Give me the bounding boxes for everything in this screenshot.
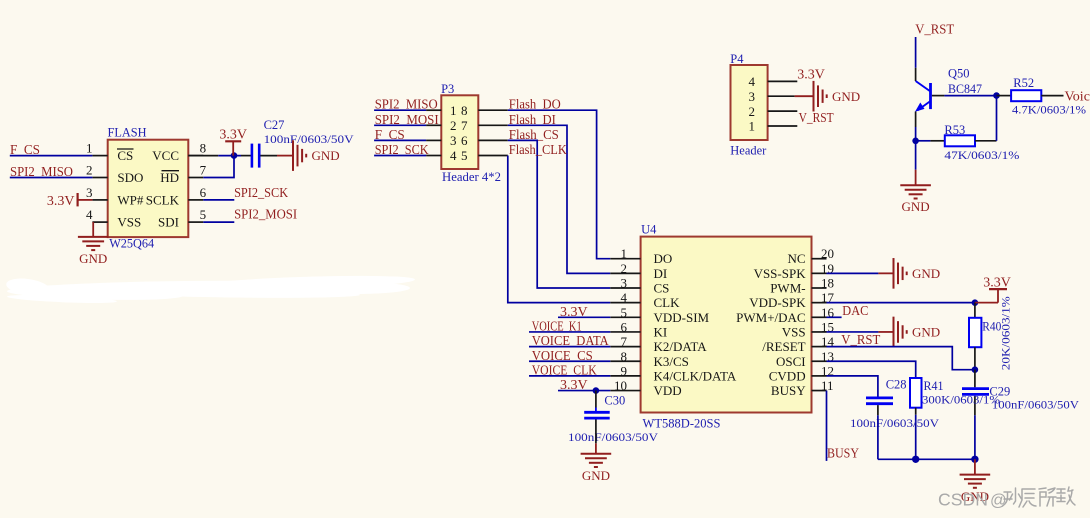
svg-text:7: 7 — [461, 118, 468, 133]
header P3 body — [441, 95, 478, 169]
svg-text:2: 2 — [450, 118, 457, 133]
svg-text:VSS-SPK: VSS-SPK — [754, 266, 807, 281]
wire Flash_CLK P3 pin5 to U4 pin4 — [508, 156, 611, 303]
capacitor C28 — [866, 398, 893, 404]
svg-text:GND: GND — [312, 148, 340, 163]
Q50 collector pin — [915, 68, 917, 81]
svg-text:R40: R40 — [982, 319, 1001, 333]
svg-text:1: 1 — [749, 119, 756, 134]
svg-text:V_RST: V_RST — [799, 111, 834, 126]
wire U4 pin 17 to 3.3V node — [827, 302, 975, 304]
svg-text:6: 6 — [461, 133, 468, 148]
ground at bottom rail — [960, 475, 991, 505]
wire U4 pin 19 to ground — [827, 272, 894, 274]
wire R53 to base node — [996, 96, 998, 141]
svg-text:4: 4 — [86, 207, 93, 222]
wire flash pin 7 HD to junction — [203, 156, 234, 178]
svg-text:GND: GND — [902, 199, 930, 214]
svg-text:BUSY: BUSY — [771, 383, 806, 398]
wire C29 to bottom rail — [974, 396, 976, 460]
R53 right pin — [975, 140, 997, 142]
junction at U4 pin 10 — [593, 387, 600, 394]
svg-text:WP#: WP# — [117, 193, 143, 208]
P4 pin stubs — [768, 81, 798, 126]
svg-text:PWM-: PWM- — [770, 281, 805, 296]
svg-text:DO: DO — [654, 251, 673, 266]
svg-text:3: 3 — [450, 133, 457, 148]
resistor R41 — [910, 378, 922, 408]
svg-text:DAC: DAC — [842, 304, 868, 319]
svg-text:2: 2 — [749, 104, 756, 119]
svg-text:SCLK: SCLK — [146, 193, 180, 208]
P4 pin numbers 4 3 2 1 — [749, 74, 756, 134]
wire VOICE_CLK to U4 pin 9 — [529, 375, 610, 377]
svg-text:3.3V: 3.3V — [797, 67, 825, 82]
ground at Q50 emitter — [900, 185, 931, 214]
wire U4 pin 16 DAC — [827, 316, 842, 318]
ground at C30 — [581, 454, 612, 483]
junction bottom rail C29 — [971, 456, 978, 463]
svg-text:SPI2_SCK: SPI2_SCK — [234, 186, 288, 201]
svg-text:BC847: BC847 — [948, 82, 982, 96]
svg-text:CVDD: CVDD — [769, 368, 806, 383]
wire SPI2_SCK to P3 pin 4 — [374, 155, 426, 157]
svg-text:P3: P3 — [441, 82, 454, 96]
wire Q50 emitter to ground — [915, 141, 917, 170]
capacitor C27 — [252, 144, 259, 168]
svg-text:1: 1 — [450, 103, 457, 118]
svg-text:Header 4*2: Header 4*2 — [442, 170, 501, 184]
svg-text:20K/0603/1%: 20K/0603/1% — [1001, 296, 1013, 371]
svg-text:2: 2 — [86, 163, 93, 178]
wire U4 pin 15 to ground — [827, 331, 894, 333]
R40 top pin — [974, 303, 976, 318]
svg-text:3.3V: 3.3V — [983, 275, 1011, 290]
junction at U4 pin 17 R40 — [972, 299, 979, 306]
svg-text:W25Q64: W25Q64 — [109, 237, 155, 251]
capacitor C29 — [962, 389, 989, 395]
resistor R52 — [1011, 90, 1041, 101]
wire junction to C30 — [595, 391, 597, 411]
wire Flash_DI P3 pin7 to U4 pin2 — [508, 125, 611, 273]
svg-text:OSCI: OSCI — [776, 354, 806, 369]
power 3.3V at flash pin 3 — [47, 193, 93, 209]
svg-text:SDI: SDI — [158, 215, 179, 230]
bottom rail wire — [878, 458, 975, 460]
wire U4 pin 11 BUSY — [826, 391, 828, 461]
svg-text:SPI2_MOSI: SPI2_MOSI — [234, 208, 297, 223]
wire F_CS — [10, 155, 93, 157]
svg-text:VDD: VDD — [654, 383, 682, 398]
svg-text:FLASH: FLASH — [108, 125, 147, 139]
capacitor C30 — [584, 412, 610, 418]
wire U4 pin 13 to R41 — [827, 361, 916, 378]
svg-text:7: 7 — [200, 163, 207, 178]
svg-text:PWM+/DAC: PWM+/DAC — [736, 310, 805, 325]
svg-text:8: 8 — [461, 103, 468, 118]
svg-text:GND: GND — [912, 325, 940, 340]
svg-text:U4: U4 — [641, 222, 657, 236]
U4 pin numbers right 20-11 — [821, 246, 835, 393]
svg-text:300K/0603/1%: 300K/0603/1% — [922, 394, 1001, 406]
ground at U4 pin 19 — [894, 258, 941, 289]
R53 left pin — [930, 140, 944, 142]
svg-text:Voice: Voice — [1065, 89, 1090, 104]
U4 pin names — [654, 251, 807, 398]
svg-text:K2/DATA: K2/DATA — [654, 339, 708, 354]
svg-text:1: 1 — [86, 141, 93, 156]
svg-text:CLK: CLK — [654, 295, 681, 310]
svg-text:4: 4 — [450, 148, 457, 163]
svg-text:100nF/0603/50V: 100nF/0603/50V — [992, 399, 1080, 411]
P3 pin stubs — [426, 110, 508, 155]
R52 left pin — [997, 95, 1012, 97]
svg-text:R53: R53 — [944, 123, 965, 137]
svg-text:Header: Header — [730, 144, 767, 158]
svg-text:GND: GND — [79, 251, 107, 266]
wire R41 to bottom rail — [915, 408, 917, 415]
U4 pin stubs right — [812, 259, 827, 391]
flash pin numbers left 1 2 3 4 — [86, 141, 93, 223]
C29 top pin — [974, 370, 976, 388]
wire SPI2_MOSI to P3 pin 2 — [374, 124, 426, 126]
svg-text:KI: KI — [654, 324, 668, 339]
wire P4 pin 3 to ground — [795, 95, 814, 97]
white smudge — [5, 273, 415, 305]
svg-text:100nF/0603/50V: 100nF/0603/50V — [850, 418, 940, 430]
svg-text:C30: C30 — [604, 394, 625, 408]
power 3.3V at flash VCC — [219, 127, 247, 155]
wire Q50 base to junction — [944, 95, 996, 97]
svg-text:Flash_CLK: Flash_CLK — [509, 143, 567, 158]
svg-text:C28: C28 — [886, 378, 907, 392]
svg-text:5: 5 — [200, 207, 207, 222]
svg-text:4.7K/0603/1%: 4.7K/0603/1% — [1012, 104, 1087, 116]
transistor Q50 BC847 — [915, 81, 931, 112]
ground at flash VSS — [78, 237, 109, 266]
svg-text:VCC: VCC — [152, 148, 179, 163]
svg-text:VDD-SIM: VDD-SIM — [654, 310, 710, 325]
wire C30 to ground — [595, 420, 597, 454]
svg-text:/RESET: /RESET — [762, 339, 805, 354]
junction R40 C29 — [972, 366, 979, 373]
header P4 body — [731, 65, 768, 140]
flash pin names — [117, 148, 180, 230]
svg-text:HD: HD — [160, 170, 179, 185]
svg-text:@: @ — [990, 492, 1007, 510]
wire SPI2_MISO to P3 pin 1 — [374, 109, 426, 111]
svg-text:47K/0603/1%: 47K/0603/1% — [944, 150, 1020, 162]
U4 pin numbers left 1-10 — [614, 246, 628, 393]
wire SPI2_MOSI — [203, 221, 234, 223]
svg-text:100nF/0603/50V: 100nF/0603/50V — [264, 134, 355, 146]
wire flash pin 8 to C27 — [188, 155, 218, 157]
U4 pin stubs left — [610, 259, 640, 391]
svg-text:CS: CS — [654, 281, 670, 296]
svg-text:SDO: SDO — [117, 170, 143, 185]
wire VOICE_K1 to U4 pin 6 — [529, 331, 610, 333]
svg-text:3.3V: 3.3V — [47, 194, 75, 209]
ground at U4 pin 15 — [894, 317, 941, 348]
wire 3.3V to U4 pin 10 — [558, 390, 610, 392]
wire Flash_CS P3 pin6 to U4 pin3 — [508, 140, 611, 288]
svg-text:4: 4 — [749, 74, 756, 89]
flash pin numbers right 8 7 6 5 — [200, 141, 207, 223]
wire C28 to bottom rail — [877, 405, 879, 415]
svg-text:V_RST: V_RST — [915, 23, 954, 38]
wire bottom rail to ground — [974, 459, 976, 474]
wire U4 pin 14 V_RST to R40 bottom junction — [827, 347, 975, 370]
wire C27 to ground — [260, 155, 293, 157]
P3 pin numbers — [450, 103, 468, 163]
wire 3.3V to U4 pin 5 — [558, 316, 610, 318]
svg-text:8: 8 — [200, 141, 207, 156]
resistor R53 — [945, 135, 975, 146]
wire flash pin 4 to ground — [92, 222, 94, 237]
R40 bottom pin — [974, 347, 976, 370]
flash chip U? W25Q64 body — [108, 140, 189, 237]
svg-text:P4: P4 — [730, 52, 744, 66]
wire Q50 emitter to junction — [915, 127, 917, 141]
wire Flash_DO P3 pin8 to U4 pin1 — [508, 110, 611, 259]
svg-text:K3/CS: K3/CS — [654, 354, 689, 369]
wire F_CS to P3 pin 3 — [374, 139, 426, 141]
wire U4 pin 12 to C28 — [827, 376, 878, 397]
resistor R40 — [969, 318, 981, 347]
svg-text:VSS: VSS — [782, 324, 806, 339]
wire VOICE_CS to U4 pin 8 — [529, 360, 610, 362]
ground at P4 pin 3 — [814, 81, 861, 112]
wire SPI2_SCK — [203, 199, 234, 201]
svg-text:NC: NC — [788, 251, 806, 266]
junction at flash pin 8 — [231, 152, 238, 159]
wire junction to R53 — [916, 140, 931, 142]
svg-text:K4/CLK/DATA: K4/CLK/DATA — [654, 368, 737, 383]
wire V_RST to Q50 collector — [915, 37, 917, 68]
svg-text:5: 5 — [461, 148, 468, 163]
svg-text:GND: GND — [912, 266, 940, 281]
svg-text:3: 3 — [86, 185, 93, 200]
svg-text:VDD-SPK: VDD-SPK — [749, 295, 806, 310]
R52 right pin wire to Voice — [1041, 95, 1063, 97]
junction at Q50 base R52 — [993, 92, 1000, 99]
Q50 base pin — [932, 95, 945, 97]
svg-text:Q50: Q50 — [948, 66, 970, 80]
svg-text:6: 6 — [200, 185, 207, 200]
svg-text:VSS: VSS — [117, 215, 141, 230]
power 3.3V at R40 — [975, 275, 1011, 302]
chip U4 WT588D-20SS body — [641, 237, 812, 413]
svg-text:C27: C27 — [264, 118, 285, 132]
svg-text:R52: R52 — [1013, 76, 1034, 90]
svg-text:BUSY: BUSY — [827, 446, 859, 461]
svg-text:3: 3 — [749, 89, 756, 104]
ground at C27 — [293, 140, 340, 171]
svg-text:CSDN: CSDN — [938, 490, 988, 510]
Q50 emitter pin — [915, 112, 917, 128]
svg-text:R41: R41 — [924, 379, 944, 393]
svg-text:3.3V: 3.3V — [219, 127, 247, 142]
svg-text:DI: DI — [654, 266, 668, 281]
svg-text:GND: GND — [582, 468, 610, 483]
svg-text:100nF/0603/50V: 100nF/0603/50V — [568, 432, 659, 444]
svg-text:WT588D-20SS: WT588D-20SS — [643, 416, 721, 430]
svg-text:GND: GND — [832, 89, 860, 104]
junction R41 bottom rail — [912, 456, 919, 463]
svg-text:CS: CS — [117, 148, 133, 163]
junction at Q50 emitter — [912, 138, 919, 145]
watermark chinese glyphs — [1003, 487, 1076, 507]
wire VOICE_DATA to U4 pin 7 — [529, 346, 610, 348]
flash pin stubs — [92, 156, 203, 223]
wire SPI2_MISO — [10, 177, 93, 179]
